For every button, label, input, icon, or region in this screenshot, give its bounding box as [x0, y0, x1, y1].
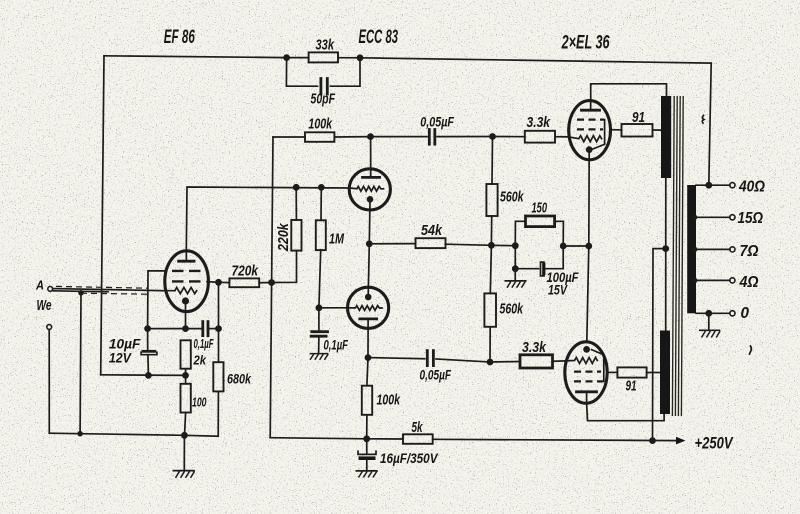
- wire primary link: [665, 178, 667, 331]
- node ground rail junction at EF86: [181, 432, 188, 439]
- node V2b anode junction: [365, 354, 372, 361]
- triode V2a cathode dot: [367, 196, 374, 203]
- svg-text:720k: 720k: [232, 264, 259, 280]
- EL36 lower g3 dashed: [574, 380, 603, 382]
- arrow +250V: [676, 437, 686, 445]
- EF86 grid g2 dashed: [172, 280, 201, 282]
- svg-text:91: 91: [632, 110, 645, 126]
- resistor R 3.3k upper: [525, 131, 555, 143]
- wire ground rail bottom left: [49, 433, 218, 436]
- EL36 lower cathode dot: [583, 346, 590, 353]
- stray mark right: [750, 346, 752, 354]
- wire tap 0: [696, 312, 730, 314]
- EF86 anode plate: [179, 260, 194, 263]
- node B+ / 720k junction: [268, 279, 275, 286]
- svg-text:220k: 220k: [276, 223, 292, 252]
- wire g2 node vertical down to 680k: [218, 282, 220, 362]
- resistor R 100: [181, 384, 191, 413]
- svg-text:54k: 54k: [421, 223, 443, 239]
- node splitter cathode junction: [366, 240, 373, 247]
- triode V2b cathode dot: [365, 294, 372, 301]
- resistor R 91 lower: [617, 367, 646, 377]
- svg-text:100k: 100k: [377, 393, 401, 409]
- ground symbol 0 tap: [708, 313, 710, 330]
- resistor R 150: [526, 216, 555, 227]
- wire V2b grid left: [319, 307, 348, 309]
- wire EF86 anode lead up and right to ECC83 grid: [186, 187, 349, 251]
- EL36 upper anode plate: [582, 109, 600, 112]
- resistor R 2k: [181, 340, 191, 368]
- wire top feedback rail left section: [104, 56, 287, 58]
- svg-text:33k: 33k: [316, 38, 335, 54]
- wire EF86 g3 to cathode node: [148, 271, 166, 329]
- node g2 node junction: [215, 279, 222, 286]
- wire B+ rail bottom: [270, 438, 403, 439]
- capacitor C 0.1uF (ECC83 grid): [318, 308, 320, 330]
- svg-text:91: 91: [626, 379, 637, 395]
- ground symbol 16uF: [356, 470, 377, 472]
- EL36 upper g2 dashed: [577, 128, 603, 130]
- ground symbol EF86: [183, 435, 185, 470]
- resistor R 54k: [416, 238, 446, 248]
- wire left feedback vertical: [101, 56, 104, 375]
- wire EF86 g2 lead right: [207, 281, 219, 284]
- node feedback / 10uF junction: [145, 372, 152, 379]
- node bias ground-side junction: [512, 242, 519, 249]
- ground symbol 100uF: [514, 269, 516, 281]
- node lower grid-line junction: [487, 359, 494, 366]
- transformer primary winding lower: [660, 331, 670, 415]
- capacitor C 10uF/12V electrolytic: [147, 329, 149, 350]
- svg-text:+250V: +250V: [695, 434, 735, 452]
- EL36 upper cathode dot: [586, 146, 593, 153]
- capacitor C 50pF: [286, 58, 317, 87]
- svg-text:12V: 12V: [109, 350, 132, 366]
- wire V2b anode down: [367, 328, 369, 357]
- tube EL36 upper envelope: [569, 101, 611, 160]
- svg-text:100k: 100k: [308, 117, 332, 133]
- capacitor C 0.1uF (EF86): [186, 328, 202, 330]
- svg-text:15Ω: 15Ω: [738, 210, 764, 227]
- wire feedback bottom horizontal: [101, 374, 186, 377]
- svg-text:7Ω: 7Ω: [740, 243, 759, 260]
- svg-text:0,1µF: 0,1µF: [324, 337, 349, 353]
- svg-text:0: 0: [741, 305, 750, 322]
- node anode line / 220k: [293, 184, 300, 191]
- wire EF86 cathode down: [185, 303, 187, 329]
- triode V2a anode plate: [363, 176, 380, 179]
- node anode line / 1M: [318, 184, 325, 191]
- svg-text:A: A: [35, 278, 44, 292]
- capacitor C 100uF/15V electrolytic: [514, 246, 516, 269]
- capacitor C 0.05uF upper: [371, 136, 428, 138]
- tube ECC83 triode V2a envelope: [349, 169, 390, 210]
- svg-text:2k: 2k: [193, 353, 207, 367]
- EL36 lower g3-cathode link: [592, 350, 604, 382]
- resistor R 91 upper: [622, 124, 653, 137]
- resistor R 1M: [316, 220, 326, 250]
- wire 220k bottom connection: [272, 251, 297, 283]
- svg-text:40Ω: 40Ω: [738, 178, 765, 195]
- svg-text:5k: 5k: [412, 420, 424, 436]
- svg-text:100: 100: [192, 396, 207, 410]
- wire tap 15ohm: [695, 216, 730, 218]
- resistor R 100k (bottom): [362, 386, 372, 415]
- node tail junction: [488, 242, 495, 249]
- EL36 lower anode plate: [577, 390, 597, 393]
- EL36 upper g3-cathode link: [592, 120, 605, 150]
- tube ECC83 triode V2b envelope (inverted): [348, 287, 389, 328]
- EF86 cathode dot: [182, 297, 189, 304]
- EF86 grid g3 dashed: [172, 270, 201, 272]
- wire tap 4ohm: [695, 279, 730, 281]
- triode V2b grid zigzag: [348, 306, 383, 311]
- stray mark: [702, 116, 704, 124]
- svg-text:0,05µF: 0,05µF: [420, 367, 452, 383]
- svg-text:3.3k: 3.3k: [522, 340, 547, 356]
- node cathode junction: [182, 325, 189, 332]
- capacitor C 0.05uF lower: [368, 358, 425, 359]
- resistor R 680k: [213, 362, 223, 391]
- wire tail to bias node: [491, 244, 515, 246]
- svg-text:2×EL 36: 2×EL 36: [561, 33, 610, 54]
- svg-text:150: 150: [532, 201, 548, 217]
- svg-text:15V: 15V: [548, 282, 568, 298]
- svg-text:4Ω: 4Ω: [739, 274, 759, 291]
- svg-text:560k: 560k: [500, 190, 524, 206]
- wire EL36 cathode line down: [587, 151, 589, 342]
- svg-text:50pF: 50pF: [311, 92, 336, 108]
- wire bias node to cathode line: [563, 245, 589, 247]
- resistor R 3.3k lower: [520, 355, 553, 368]
- input terminal We: [47, 325, 52, 330]
- EL36 lower g1 zigzag: [565, 358, 597, 364]
- ground symbol 0.1uF: [318, 338, 320, 354]
- svg-text:0,1µF: 0,1µF: [194, 337, 214, 351]
- wire input shielded cable: [53, 289, 165, 291]
- resistor R 5k: [403, 434, 433, 444]
- svg-text:680k: 680k: [227, 372, 252, 387]
- capacitor C 16uF/350V electrolytic: [366, 439, 368, 453]
- svg-text:We: We: [37, 298, 52, 314]
- triode V2b anode plate: [360, 317, 377, 320]
- resistor R 560k lower: [484, 293, 496, 326]
- node cathode line junction: [585, 243, 592, 250]
- input terminal A: [48, 287, 53, 292]
- wire shield drop: [79, 293, 82, 434]
- wire tap 40ohm: [696, 184, 730, 186]
- wire EL36 upper anode to transformer: [591, 84, 667, 101]
- resistor R 560k upper: [486, 184, 497, 216]
- svg-text:3.3k: 3.3k: [527, 115, 551, 131]
- node triode1 anode junction: [367, 133, 374, 140]
- svg-text:16µF/350V: 16µF/350V: [380, 450, 439, 466]
- node 2k/100 junction: [182, 372, 189, 379]
- wire cathode node to g3 line: [148, 328, 186, 330]
- node junction 33k left: [283, 54, 290, 61]
- EL36 lower g2 dashed: [574, 371, 601, 373]
- wire B+ feed vertical: [270, 137, 273, 438]
- resistor R 720k: [229, 278, 259, 287]
- triode V2a grid zigzag: [349, 186, 383, 191]
- node junction 33k right: [357, 54, 364, 61]
- wire feedback from 40ohm tap: [709, 63, 711, 185]
- svg-text:1M: 1M: [329, 232, 345, 248]
- node bias cathode-side junction: [560, 243, 567, 250]
- transformer secondary winding: [687, 185, 696, 313]
- svg-text:0,05µF: 0,05µF: [420, 114, 454, 130]
- node primary center tap: [662, 245, 669, 252]
- svg-text:560k: 560k: [500, 302, 524, 318]
- node shield junction: [78, 290, 84, 296]
- svg-text:EF 86: EF 86: [164, 27, 195, 48]
- transformer core laminations: [672, 96, 674, 416]
- node B+ rail / 100k junction: [363, 435, 370, 442]
- wire top rail right section to output tap: [360, 58, 711, 63]
- wire EL36 lower anode to transformer: [587, 403, 665, 421]
- resistor R 100k (ECC83 anode load): [305, 132, 334, 142]
- EL36 upper g3 dashed: [577, 118, 604, 120]
- resistor R 33k: [309, 52, 338, 62]
- wire We terminal down: [48, 330, 50, 434]
- tube EL36 lower envelope (inverted): [565, 342, 607, 403]
- svg-text:ECC 83: ECC 83: [359, 27, 399, 48]
- wire center tap to B+ rail: [653, 249, 666, 441]
- transformer primary winding upper: [661, 96, 671, 178]
- wire V2a cathode down: [368, 201, 371, 244]
- wire tap 7ohm: [695, 248, 730, 250]
- EL36 upper g1 zigzag: [569, 136, 602, 142]
- node V2b grid junction: [316, 304, 323, 311]
- resistor R 220k: [291, 220, 301, 251]
- wire V2b cathode up: [368, 244, 369, 296]
- tube EF86 V1 envelope: [165, 251, 209, 312]
- EF86 grid g1 zigzag: [165, 288, 197, 294]
- node 560k upper top junction: [489, 133, 496, 140]
